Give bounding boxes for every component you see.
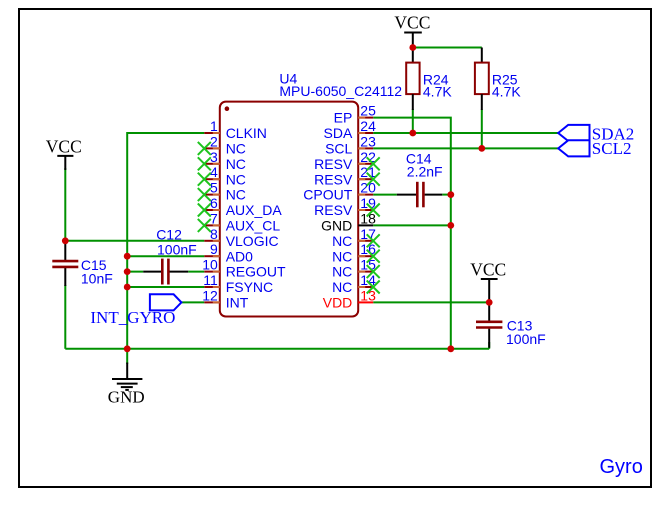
svg-text:2.2nF: 2.2nF (407, 164, 443, 180)
pin orange ticks left (213, 133, 220, 302)
svg-text:VCC: VCC (470, 260, 506, 280)
capacitor C14 (397, 151, 443, 208)
wire: pin8 VLOGIC to VCC rail (65, 240, 204, 242)
svg-text:10: 10 (202, 257, 218, 273)
svg-text:100nF: 100nF (157, 242, 197, 258)
svg-text:GND: GND (321, 218, 352, 234)
capacitor C15 (52, 243, 113, 287)
capacitor C12 (143, 227, 197, 285)
wire: pin10 REGOUT to C12 (188, 271, 204, 273)
wire: pin23 SCL to SCL2 flag (373, 147, 558, 149)
svg-text:8: 8 (210, 226, 218, 242)
svg-text:Gyro: Gyro (600, 456, 643, 478)
wire: R24 bottom to SDA (412, 109, 414, 133)
net flag SCL2 (558, 139, 631, 158)
svg-text:18: 18 (360, 210, 376, 226)
ground GND (108, 363, 145, 407)
resistor R24 (406, 48, 452, 111)
wire: VCC left stem (64, 168, 66, 241)
svg-text:MPU-6050_C24112: MPU-6050_C24112 (279, 83, 402, 99)
svg-text:NC: NC (226, 187, 246, 203)
left pin numbers (202, 118, 218, 303)
right pin labels (303, 110, 353, 311)
svg-text:SCL2: SCL2 (592, 139, 632, 158)
svg-text:AUX_DA: AUX_DA (226, 202, 283, 218)
right pin stubs (358, 118, 373, 287)
svg-text:2: 2 (210, 133, 218, 149)
svg-text:INT_GYRO: INT_GYRO (90, 308, 175, 327)
resistor R25 (475, 48, 521, 111)
wire: pin24 SDA to SDA2 flag (373, 132, 558, 134)
svg-text:RESV: RESV (314, 202, 353, 218)
junction dot ground rail/right rail (447, 345, 454, 352)
junction dot pin9 (124, 253, 131, 260)
svg-text:VCC: VCC (394, 13, 430, 33)
junction dot pin10 (124, 268, 131, 275)
wire: VCC top to R25 branch (413, 47, 482, 49)
wire: C13 bottom to ground rail (488, 342, 490, 349)
svg-text:10nF: 10nF (81, 271, 113, 287)
svg-text:VDD: VDD (323, 295, 353, 311)
svg-text:1: 1 (210, 118, 218, 134)
svg-text:25: 25 (360, 103, 376, 119)
pin13 stub (VDD, red) (358, 301, 373, 303)
svg-text:NC: NC (226, 141, 246, 157)
svg-text:7: 7 (210, 210, 218, 226)
no-connect X marks right pins 22,21,19,17,16,15,14 (367, 157, 380, 293)
svg-text:11: 11 (203, 272, 218, 288)
net flag SDA2 (558, 125, 634, 144)
wire: GND stem green (126, 349, 128, 364)
capacitor C13 (476, 302, 546, 347)
svg-text:INT: INT (226, 295, 249, 311)
junction dot C14/ground rail (447, 191, 454, 198)
svg-text:AD0: AD0 (226, 248, 253, 264)
junction dot R25/SCL (478, 145, 485, 152)
wire: pin9 AD0 (127, 255, 204, 257)
pin18 stub (GND, black) (358, 224, 373, 226)
junction dot VCC top (409, 44, 416, 51)
IC U4 MPU-6050_C24112 (220, 70, 403, 316)
svg-text:SCL: SCL (325, 141, 352, 157)
svg-text:NC: NC (332, 248, 352, 264)
svg-text:NC: NC (226, 171, 246, 187)
pin orange ticks right (358, 118, 365, 287)
wire: pin18 GND to right ground rail (373, 224, 451, 226)
left pin stubs (204, 133, 220, 302)
wire: pin1 CLKIN to ground rail left (127, 133, 204, 349)
svg-text:NC: NC (332, 264, 352, 280)
svg-text:FSYNC: FSYNC (226, 279, 273, 295)
wire: pin11 FSYNC (127, 286, 204, 288)
svg-text:C12: C12 (156, 227, 182, 243)
svg-text:12: 12 (202, 287, 218, 303)
wire: pin20 CPOUT to C14 (373, 194, 397, 196)
svg-text:9: 9 (210, 241, 218, 257)
left pin labels (226, 125, 286, 310)
power flag VCC top (394, 13, 430, 48)
svg-text:5: 5 (210, 180, 218, 196)
svg-text:RESV: RESV (314, 171, 353, 187)
svg-text:VLOGIC: VLOGIC (226, 233, 279, 249)
svg-text:GND: GND (108, 388, 145, 407)
wire: C12 to ground rail (127, 271, 143, 273)
svg-text:NC: NC (226, 156, 246, 172)
svg-text:CPOUT: CPOUT (303, 187, 352, 203)
svg-text:CLKIN: CLKIN (226, 125, 267, 141)
svg-text:EP: EP (334, 110, 353, 126)
svg-text:6: 6 (210, 195, 218, 211)
svg-text:VCC: VCC (46, 136, 82, 156)
svg-text:20: 20 (360, 180, 376, 196)
junction dot pin18/ground rail (447, 222, 454, 229)
junction dot VCC left/pin8 (62, 237, 69, 244)
wire: pin12 INT to flag (181, 301, 204, 303)
svg-text:100nF: 100nF (506, 331, 546, 347)
junction dot pin11 (124, 284, 131, 291)
junction dot R24/SDA (409, 130, 416, 137)
svg-text:AUX_CL: AUX_CL (226, 218, 281, 234)
wire: C15 bottom to ground wire (64, 285, 66, 349)
power flag VCC right (470, 260, 506, 303)
no-connect X marks left pins 2-7 (198, 142, 211, 232)
net flag INT_GYRO (90, 294, 181, 327)
svg-text:REGOUT: REGOUT (226, 264, 286, 280)
wire: pin25 EP to right ground rail (373, 118, 451, 349)
svg-text:13: 13 (360, 287, 376, 303)
svg-text:RESV: RESV (314, 156, 353, 172)
junction dot ground rail/GND (124, 345, 131, 352)
svg-text:4.7K: 4.7K (492, 83, 521, 99)
power flag VCC left (46, 136, 82, 170)
svg-text:4.7K: 4.7K (423, 83, 452, 99)
svg-text:4: 4 (210, 164, 218, 180)
svg-text:SDA: SDA (324, 125, 353, 141)
wire: bottom ground rail (65, 348, 489, 350)
junction dot VDD/C13 (486, 299, 493, 306)
svg-text:23: 23 (360, 133, 376, 149)
svg-text:3: 3 (210, 149, 218, 165)
svg-text:24: 24 (360, 118, 376, 134)
right pin numbers (360, 103, 376, 304)
wire: R25 bottom to SCL (481, 109, 483, 148)
svg-text:NC: NC (332, 233, 352, 249)
wire: C14 to right ground rail (442, 194, 451, 196)
svg-text:NC: NC (332, 279, 352, 295)
wire: pin13 VDD to VCC right (373, 301, 489, 303)
